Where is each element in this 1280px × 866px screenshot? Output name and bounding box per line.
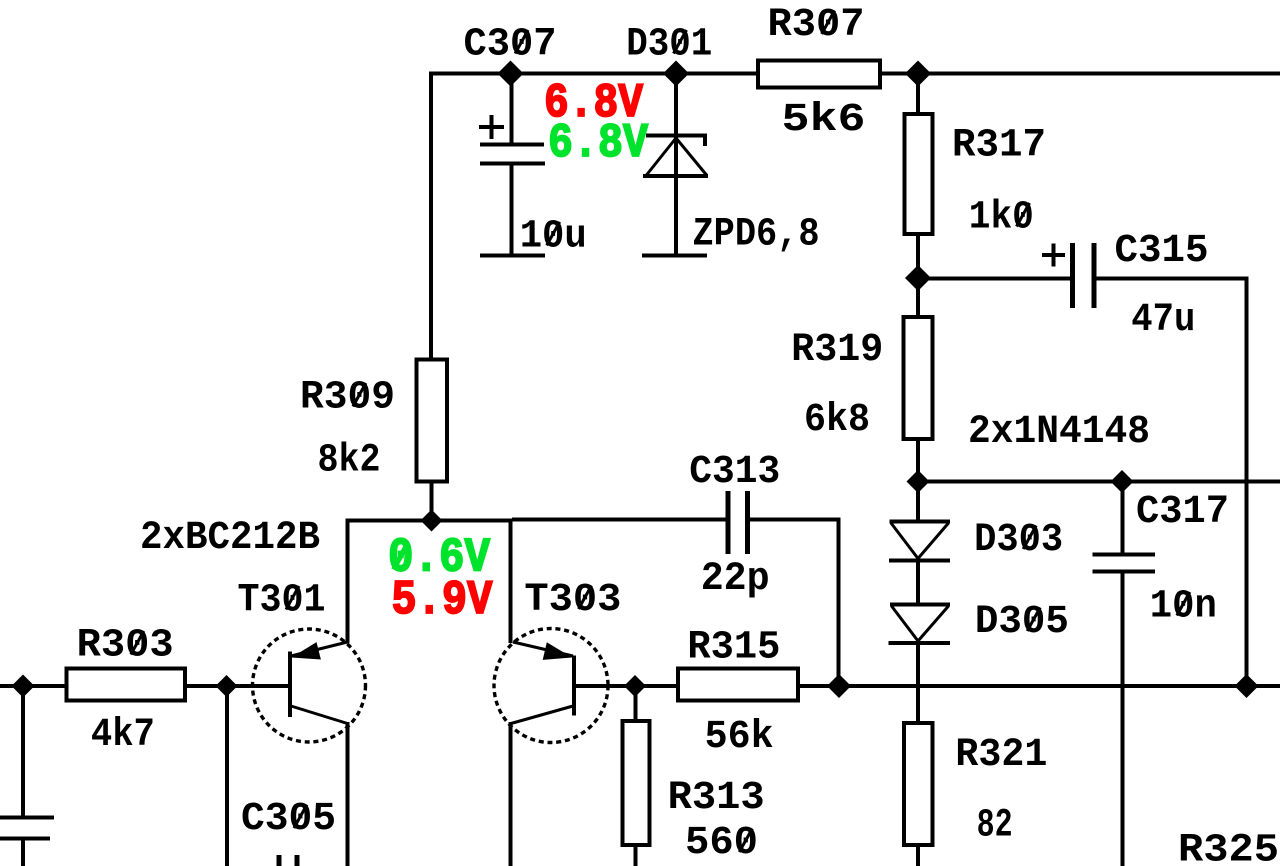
svg-text:10u: 10u (520, 214, 587, 259)
svg-text:C317: C317 (1136, 490, 1229, 535)
svg-text:8k2: 8k2 (318, 439, 381, 484)
svg-text:D303: D303 (974, 518, 1063, 563)
svg-text:2xBC212B: 2xBC212B (140, 516, 320, 561)
svg-text:R325: R325 (1178, 828, 1279, 866)
svg-text:5.9V: 5.9V (391, 574, 492, 628)
svg-text:1k0: 1k0 (969, 196, 1034, 241)
svg-text:R309: R309 (300, 376, 395, 421)
svg-text:D305: D305 (975, 600, 1069, 645)
svg-text:2x1N4148: 2x1N4148 (968, 410, 1150, 455)
svg-text:D301: D301 (626, 23, 712, 68)
svg-text:C307: C307 (464, 23, 557, 68)
svg-text:82: 82 (977, 804, 1013, 849)
svg-text:4k7: 4k7 (91, 713, 155, 758)
svg-text:R321: R321 (955, 733, 1047, 778)
svg-text:6.8V: 6.8V (548, 117, 648, 171)
svg-text:22p: 22p (701, 557, 770, 602)
svg-text:ZPD6,8: ZPD6,8 (693, 212, 820, 257)
svg-text:R315: R315 (687, 625, 780, 670)
svg-text:C315: C315 (1115, 229, 1209, 274)
svg-text:56k: 56k (705, 715, 774, 760)
svg-text:R313: R313 (668, 776, 765, 821)
svg-text:560: 560 (685, 821, 758, 866)
svg-text:T301: T301 (238, 579, 326, 624)
svg-text:C305: C305 (241, 797, 336, 842)
svg-text:R307: R307 (768, 3, 865, 48)
svg-text:47u: 47u (1131, 298, 1195, 343)
svg-text:10n: 10n (1150, 585, 1217, 630)
svg-text:5k6: 5k6 (782, 98, 866, 143)
svg-text:R319: R319 (791, 328, 883, 373)
svg-text:R317: R317 (952, 124, 1046, 169)
svg-text:T303: T303 (524, 578, 621, 623)
svg-text:6k8: 6k8 (804, 398, 870, 443)
svg-text:R303: R303 (77, 624, 174, 669)
svg-text:C313: C313 (689, 450, 780, 495)
